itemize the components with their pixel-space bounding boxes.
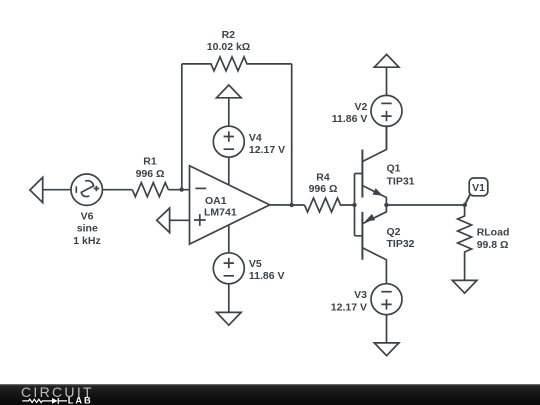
svg-text:V3: V3 xyxy=(354,289,367,301)
svg-text:V2: V2 xyxy=(355,101,368,113)
svg-text:sine: sine xyxy=(77,222,98,234)
svg-text:99.8 Ω: 99.8 Ω xyxy=(477,239,509,251)
svg-text:V4: V4 xyxy=(249,132,262,144)
svg-text:Q1: Q1 xyxy=(387,163,401,175)
svg-text:R2: R2 xyxy=(222,29,236,41)
svg-text:OA1: OA1 xyxy=(205,195,227,207)
svg-text:R1: R1 xyxy=(143,156,157,168)
svg-text:12.17 V: 12.17 V xyxy=(331,301,367,313)
svg-text:R4: R4 xyxy=(316,172,330,184)
svg-text:LAB: LAB xyxy=(68,395,93,405)
svg-text:LM741: LM741 xyxy=(204,207,237,219)
svg-text:12.17 V: 12.17 V xyxy=(249,144,285,156)
svg-text:V1: V1 xyxy=(472,182,485,194)
svg-text:1 kHz: 1 kHz xyxy=(73,235,100,247)
svg-text:V5: V5 xyxy=(249,258,262,270)
svg-text:11.86 V: 11.86 V xyxy=(249,270,285,282)
svg-text:TIP31: TIP31 xyxy=(387,175,415,187)
svg-text:996 Ω: 996 Ω xyxy=(309,183,338,195)
svg-text:Q2: Q2 xyxy=(387,226,401,238)
svg-text:11.86 V: 11.86 V xyxy=(332,113,368,125)
svg-text:RLoad: RLoad xyxy=(477,227,510,239)
svg-text:10.02 kΩ: 10.02 kΩ xyxy=(207,41,250,53)
svg-text:996 Ω: 996 Ω xyxy=(136,168,165,180)
svg-text:V6: V6 xyxy=(81,211,94,223)
svg-text:TIP32: TIP32 xyxy=(387,238,415,250)
